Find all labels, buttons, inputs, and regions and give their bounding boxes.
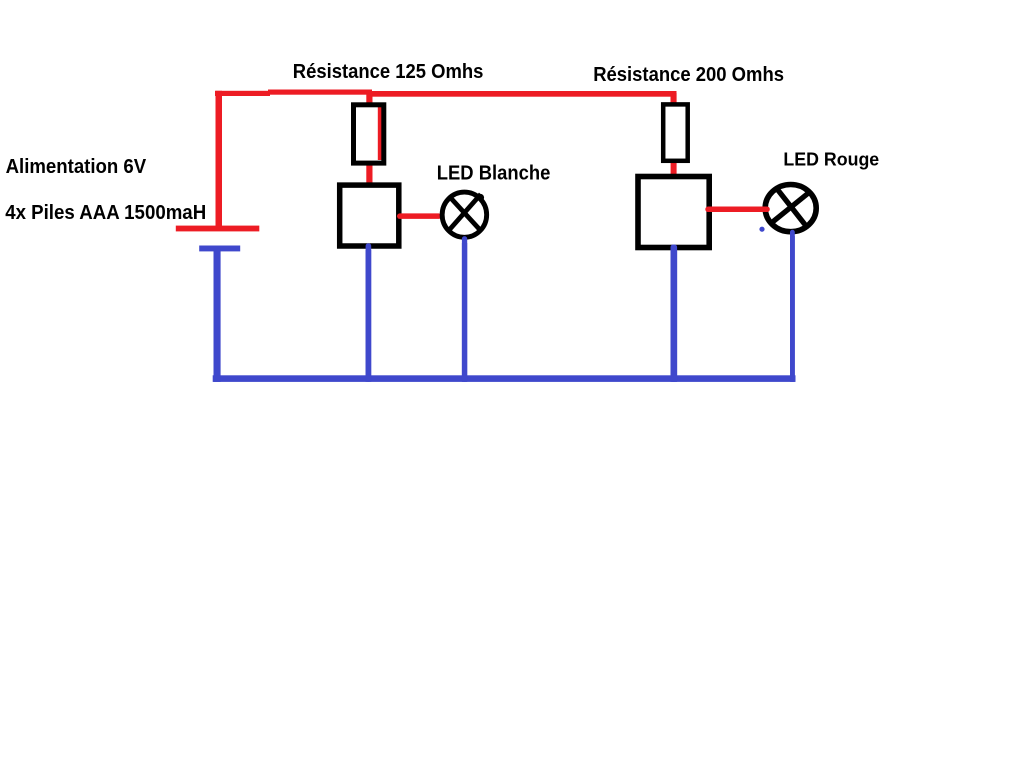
svg-text:LED Blanche: LED Blanche [437, 163, 551, 185]
svg-text:Résistance 200 Omhs: Résistance 200 Omhs [593, 64, 784, 86]
svg-text:LED Rouge: LED Rouge [783, 149, 879, 169]
svg-text:4x Piles AAA 1500maH: 4x Piles AAA 1500maH [5, 202, 206, 224]
svg-text:Alimentation 6V: Alimentation 6V [6, 156, 147, 178]
svg-text:Résistance 125 Omhs: Résistance 125 Omhs [293, 61, 484, 83]
